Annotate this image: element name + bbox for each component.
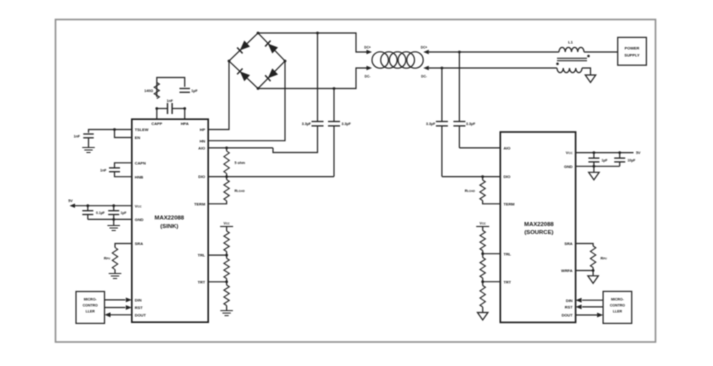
svg-text:DIN: DIN bbox=[566, 298, 573, 303]
svg-text:GND: GND bbox=[135, 217, 144, 222]
svg-text:DC+: DC+ bbox=[364, 45, 371, 49]
svg-text:1nF: 1nF bbox=[74, 135, 81, 139]
ground below C7 bbox=[82, 147, 95, 149]
svg-text:RPU: RPU bbox=[104, 257, 110, 261]
svg-text:CAPP: CAPP bbox=[151, 121, 162, 126]
node L1 primary polarity dot bbox=[587, 55, 590, 58]
node bridge top bbox=[257, 32, 260, 35]
wire U1 TRL bbox=[225, 254, 228, 257]
wire HP to bridge left node bbox=[208, 61, 229, 130]
wire HPA stub bbox=[184, 109, 186, 120]
wire U2 GND bbox=[576, 165, 620, 167]
IC U1 MAX22088 (SINK) body bbox=[132, 119, 208, 322]
svg-text:1nF: 1nF bbox=[167, 99, 174, 103]
resistor R4 RLOAD (DIO-TERM) bbox=[225, 175, 228, 178]
ground (triangle) below L1 bbox=[585, 75, 596, 83]
wire CAPP stub bbox=[156, 109, 158, 120]
wire U1 DIO bbox=[208, 176, 334, 178]
svg-text:VCC: VCC bbox=[223, 221, 229, 225]
svg-text:DC+: DC+ bbox=[421, 45, 428, 49]
svg-text:MICRO-: MICRO- bbox=[611, 298, 625, 302]
resistor R3 5ohm (AIO-DIO) bbox=[225, 147, 228, 150]
wire bridge diamond bbox=[229, 33, 285, 89]
inductor L1 primary winding bbox=[559, 47, 584, 52]
svg-text:SRA: SRA bbox=[564, 241, 572, 246]
ground below U1 chain bbox=[220, 310, 233, 312]
svg-text:(SOURCE): (SOURCE) bbox=[524, 230, 553, 236]
ground below R2 bbox=[109, 273, 122, 275]
arrow into cable left top bbox=[367, 50, 373, 54]
svg-text:EN: EN bbox=[135, 135, 141, 140]
svg-text:GND: GND bbox=[564, 164, 573, 169]
svg-text:RST: RST bbox=[135, 305, 143, 310]
svg-text:(SINK): (SINK) bbox=[160, 224, 178, 230]
wire RST right bbox=[582, 306, 603, 308]
svg-text:MAX22088: MAX22088 bbox=[155, 216, 185, 222]
wire EN tie bbox=[115, 130, 132, 138]
svg-text:LLER: LLER bbox=[613, 310, 623, 314]
wire U2 DIO bbox=[442, 176, 500, 178]
svg-text:3.3µF: 3.3µF bbox=[342, 122, 352, 126]
svg-text:TERM: TERM bbox=[194, 201, 205, 206]
svg-text:POWER: POWER bbox=[625, 46, 640, 51]
frame border bbox=[56, 20, 656, 343]
wire U2 TRL bbox=[481, 252, 484, 255]
svg-text:AIO: AIO bbox=[198, 146, 205, 151]
capacitor C10 1uF (U1 VCC) bbox=[112, 204, 115, 207]
svg-text:DOUT: DOUT bbox=[562, 313, 574, 318]
svg-text:SUPPLY: SUPPLY bbox=[624, 53, 640, 58]
svg-text:HN: HN bbox=[200, 138, 206, 143]
arrow into cable right bottom bbox=[423, 66, 429, 70]
svg-text:1µF: 1µF bbox=[191, 89, 198, 93]
diode D4 (bottom-right) bbox=[265, 68, 278, 81]
svg-text:AIO: AIO bbox=[504, 146, 511, 151]
svg-text:SRA: SRA bbox=[135, 241, 143, 246]
wire L1 secondary to ground bbox=[582, 68, 591, 75]
capacitor C9 0.1uF (U1 VCC) bbox=[86, 204, 89, 207]
wire U1 TRT bbox=[225, 280, 228, 283]
diode D1 (top-left) bbox=[237, 41, 250, 54]
svg-text:DIO: DIO bbox=[198, 174, 205, 179]
wire top bus right of cable bbox=[429, 51, 559, 53]
svg-text:10µF: 10µF bbox=[628, 159, 636, 163]
svg-text:L1: L1 bbox=[568, 40, 573, 45]
svg-text:3.3µF: 3.3µF bbox=[466, 122, 476, 126]
wire U2 WRFA bbox=[576, 270, 594, 272]
resistor R5 (VCC-TRL) bbox=[226, 227, 228, 232]
microcontroller box left bbox=[76, 292, 105, 324]
inductor L1 secondary winding bbox=[557, 68, 582, 73]
resistor R7 (TRT-GND) bbox=[224, 285, 229, 306]
wire U2 VCC bbox=[576, 152, 634, 154]
power supply box bbox=[618, 37, 647, 65]
wire DIN right bbox=[582, 299, 603, 301]
svg-text:MICRO-: MICRO- bbox=[84, 298, 98, 302]
wire U2 TRT bbox=[481, 280, 484, 283]
wire DOUT left bbox=[111, 314, 132, 316]
svg-text:RPU: RPU bbox=[601, 257, 607, 261]
svg-text:TRL: TRL bbox=[504, 251, 512, 256]
ground (triangle) below U2 chain bbox=[477, 313, 488, 321]
wire HN to bridge right node bbox=[208, 61, 285, 141]
capacitor C4 3.3uF (right pair, AIO side) bbox=[458, 52, 460, 122]
microcontroller box right bbox=[603, 291, 632, 323]
diode D3 (bottom-left) bbox=[237, 68, 250, 81]
svg-text:5V: 5V bbox=[68, 199, 73, 203]
svg-text:HNB: HNB bbox=[135, 174, 144, 179]
IC U2 MAX22088 (SOURCE) body bbox=[500, 132, 575, 322]
svg-text:DIO: DIO bbox=[504, 174, 511, 179]
wire top bus from bridge bbox=[258, 33, 367, 52]
svg-text:TRL: TRL bbox=[198, 253, 206, 258]
node L1 secondary polarity dot bbox=[556, 63, 559, 66]
svg-text:VCC: VCC bbox=[566, 150, 574, 155]
ground below U1 GND bbox=[107, 225, 120, 227]
svg-text:0.1µF: 0.1µF bbox=[96, 211, 105, 215]
resistor R12 RPU (U2 SRA) bbox=[576, 244, 594, 247]
svg-text:3.3µF: 3.3µF bbox=[426, 122, 436, 126]
wire U1 AIO bbox=[208, 147, 273, 149]
svg-text:1nF: 1nF bbox=[100, 168, 107, 172]
ground (triangle) below R12 bbox=[588, 276, 599, 284]
svg-text:HP: HP bbox=[200, 127, 206, 132]
resistor R10 (TRL-TRT) bbox=[480, 258, 485, 279]
svg-text:5V: 5V bbox=[636, 151, 641, 155]
svg-text:DC-: DC- bbox=[421, 74, 427, 78]
svg-text:VCC: VCC bbox=[480, 221, 486, 225]
svg-text:DIN: DIN bbox=[135, 298, 142, 303]
capacitor C2 3.3uF (left pair, DIO side) bbox=[333, 89, 335, 122]
resistor R1 140ohm (CAPP) bbox=[154, 83, 159, 99]
svg-text:TRT: TRT bbox=[504, 279, 512, 284]
svg-text:1µF: 1µF bbox=[602, 159, 608, 163]
svg-text:DC-: DC- bbox=[365, 74, 371, 78]
svg-text:LLER: LLER bbox=[86, 310, 96, 314]
capacitor C5 1uF (HPA) bbox=[179, 88, 190, 90]
capacitor C7 1nF (TSLEW) bbox=[83, 133, 94, 135]
arrow into cable left bottom bbox=[367, 66, 373, 70]
resistor R8 RLOAD (U2 DIO-TERM) bbox=[481, 175, 484, 178]
twisted-pair cable loops bbox=[372, 52, 388, 68]
svg-text:RLOAD: RLOAD bbox=[465, 189, 475, 193]
svg-text:TSLEW: TSLEW bbox=[135, 127, 149, 132]
resistor R2 RPU (U1 SRA) bbox=[115, 244, 132, 248]
svg-text:3.3µF: 3.3µF bbox=[302, 122, 312, 126]
node bridge right bbox=[284, 60, 287, 63]
capacitor C3 3.3uF (right pair, DIO side) bbox=[441, 68, 443, 122]
resistor R11 (TRT-GND) bbox=[480, 286, 485, 308]
node 5V supply left bbox=[70, 204, 76, 208]
svg-text:CONTRO: CONTRO bbox=[83, 304, 98, 308]
svg-text:5 ohm: 5 ohm bbox=[235, 161, 246, 165]
ground (triangle) below U2 GND bbox=[589, 172, 600, 180]
svg-text:TRT: TRT bbox=[198, 279, 206, 284]
node bridge bottom bbox=[257, 87, 260, 90]
wire RST left bbox=[105, 307, 126, 309]
wire U2 AIO bbox=[459, 147, 500, 149]
svg-text:WRFA: WRFA bbox=[561, 268, 573, 273]
svg-text:RLOAD: RLOAD bbox=[235, 189, 245, 193]
svg-text:HPA: HPA bbox=[181, 121, 189, 126]
svg-text:1µF: 1µF bbox=[121, 211, 127, 215]
resistor R9 (VCC-TRL) bbox=[482, 227, 484, 231]
svg-text:DOUT: DOUT bbox=[135, 312, 147, 317]
svg-text:VCC: VCC bbox=[135, 203, 143, 208]
svg-text:140Ω: 140Ω bbox=[144, 89, 153, 93]
wire U1 GND bbox=[88, 218, 132, 220]
wire top of RC loop bbox=[157, 78, 185, 98]
wire TSLEW pin bbox=[89, 130, 132, 133]
node bridge left bbox=[228, 60, 231, 63]
wire DIN left bbox=[105, 299, 126, 301]
diode D2 (top-right) bbox=[265, 41, 278, 54]
wire U1 VCC bbox=[75, 205, 132, 207]
capacitor C11 1uF (U2 VCC) bbox=[593, 151, 596, 154]
svg-text:CAPN: CAPN bbox=[135, 160, 146, 165]
capacitor C1 3.3uF (left pair, AIO side) bbox=[317, 33, 319, 122]
svg-text:TERM: TERM bbox=[504, 201, 515, 206]
capacitor C12 10uF (U2 VCC) bbox=[618, 151, 621, 154]
capacitor C6 1nF (series CAPP-HPA) bbox=[167, 103, 169, 114]
wire bottom bus from bridge bbox=[258, 68, 367, 89]
inductor L1 core bbox=[557, 57, 587, 59]
wire DOUT right bbox=[576, 314, 598, 316]
arrow into cable right top bbox=[423, 50, 429, 54]
wire bottom bus right of cable bbox=[429, 67, 557, 69]
svg-text:RST: RST bbox=[565, 305, 573, 310]
capacitor C8 1nF (CAPN-HNB) bbox=[115, 163, 132, 168]
svg-text:CONTRO: CONTRO bbox=[610, 304, 625, 308]
resistor R6 (TRL-TRT) bbox=[224, 258, 229, 278]
svg-text:MAX22088: MAX22088 bbox=[524, 222, 554, 228]
